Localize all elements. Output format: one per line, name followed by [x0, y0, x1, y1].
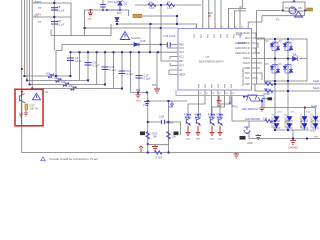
svg-text:If anode should be connected t: If anode should be connected to 7S tab — [49, 157, 98, 161]
svg-text:GND: GND — [217, 105, 222, 107]
svg-text:0.1µF: 0.1µF — [127, 72, 134, 76]
wire left bus vertical 3 — [27, 0, 88, 80]
ground tp6 — [136, 93, 141, 98]
wire rail S-bend — [56, 45, 62, 77]
resistor bottom line — [155, 151, 162, 154]
svg-text:GND: GND — [136, 101, 141, 103]
svg-text:NC: NC — [179, 69, 183, 72]
svg-text:SEGMENT_D: SEGMENT_D — [312, 113, 314, 128]
power flag gnd145 — [139, 146, 143, 153]
svg-text:10k: 10k — [61, 80, 66, 84]
svg-text:R5: R5 — [208, 14, 212, 18]
NTC thermistor — [25, 104, 28, 110]
capacitor C9 col2 — [85, 63, 92, 66]
svg-text:PC1: PC1 — [245, 36, 251, 40]
wire rail T2 — [70, 51, 177, 53]
wire +5V rail — [33, 16, 71, 18]
wire led mid taps — [265, 39, 308, 81]
svg-text:TP12: TP12 — [232, 105, 239, 109]
svg-text:0.1µF: 0.1µF — [93, 64, 100, 68]
svg-text:0.1 µF: 0.1 µF — [57, 8, 65, 12]
fuse F1 orange — [133, 14, 142, 17]
resistor R22 vertical — [146, 132, 149, 139]
IC right inner labels — [235, 31, 251, 86]
capacitor C17 col5 — [136, 76, 143, 79]
wire box right leg — [84, 10, 86, 36]
wire bottom left cluster — [148, 101, 181, 153]
led box — [265, 39, 308, 81]
svg-text:SEGMENT_A: SEGMENT_A — [272, 113, 275, 128]
svg-text:LEDCNT(L3): LEDCNT(L3) — [235, 46, 250, 50]
svg-text:C5 0.1µF: C5 0.1µF — [108, 0, 119, 4]
svg-text:SCL: SCL — [245, 76, 251, 80]
wire bottom mid transistors drain — [188, 125, 220, 128]
led labels — [266, 41, 297, 66]
svg-text:1.1K: 1.1K — [167, 6, 173, 10]
svg-text:C15 2.2µF: C15 2.2µF — [164, 34, 177, 38]
svg-text:RST: RST — [179, 65, 184, 68]
svg-text:SegF: SegF — [313, 79, 320, 83]
IC bottom pin labels vertical — [198, 83, 233, 88]
ground led display — [259, 107, 264, 111]
wire led box feeds — [256, 33, 265, 53]
capacitor C5 top — [100, 5, 106, 7]
svg-text:U?: U? — [206, 55, 210, 59]
wire box bottom — [51, 17, 111, 36]
wire cap columns — [70, 52, 139, 92]
capacitor C4 col4 — [119, 71, 126, 74]
power tag vcc — [307, 8, 313, 11]
svg-text:PGM: PGM — [236, 33, 242, 37]
transistors Q2-Q5 bottom — [185, 113, 223, 126]
lavender stub arrow tp12 — [228, 103, 231, 105]
svg-text:TP5: TP5 — [152, 83, 157, 87]
IC left inner labels — [179, 44, 186, 77]
svg-text:TP6: TP6 — [136, 88, 141, 92]
wire tp5 stub — [156, 52, 158, 87]
IMP box r23 — [174, 132, 179, 136]
IC U1 ATMEGA — [178, 29, 252, 91]
svg-text:GND: GND — [218, 139, 223, 141]
svg-text:0.1 µF: 0.1 µF — [166, 120, 174, 124]
ground transistors Q2-Q5 — [186, 126, 223, 136]
wire bottom right leds — [249, 81, 320, 139]
svg-text:R31: R31 — [264, 87, 269, 91]
resistor RN4 — [70, 85, 76, 92]
svg-text:SMB: SMB — [244, 66, 250, 70]
svg-text:TP7: TP7 — [143, 104, 148, 108]
svg-text:PROGRAMMING: PROGRAMMING — [242, 67, 245, 86]
wire cap column C8 C11 — [53, 0, 55, 51]
svg-text:DSP: DSP — [245, 82, 251, 86]
resistor RN3 — [63, 81, 69, 88]
svg-text:10k: 10k — [153, 135, 158, 139]
svg-text:LED DISPLAY: LED DISPLAY — [242, 107, 259, 111]
led D9 mid — [293, 57, 298, 62]
capacitor C11 — [51, 22, 58, 25]
ground shutdown q — [256, 134, 262, 140]
resistor R6 — [48, 3, 273, 154]
svg-text:+BATT: +BATT — [34, 0, 42, 4]
svg-text:AREF: AREF — [179, 74, 186, 77]
svg-text:10k: 10k — [46, 72, 51, 76]
wire bat top — [85, 10, 197, 36]
resistor RN1 — [48, 73, 54, 80]
svg-text:RESET: RESET — [238, 41, 247, 45]
wire shutdown transistor — [248, 121, 250, 139]
resistor R23 vertical — [167, 132, 170, 139]
svg-text:GND: GND — [186, 139, 191, 141]
wire shutdown — [232, 97, 275, 122]
svg-text:TP: TP — [38, 6, 42, 10]
wire blue net d2 — [107, 5, 120, 10]
svg-text:1.1K: 1.1K — [149, 6, 155, 10]
red box highlight — [15, 89, 43, 126]
wire bat diode — [117, 22, 150, 52]
svg-text:SegE: SegE — [311, 104, 318, 108]
resistor R30 — [265, 82, 273, 85]
diode schottky D10 — [134, 43, 139, 47]
bottom right LEDs — [273, 117, 319, 129]
svg-text:C18: C18 — [159, 115, 164, 119]
svg-text:+5V: +5V — [34, 14, 39, 18]
IC top pin numbers — [195, 27, 244, 29]
wire ic left pins — [161, 45, 178, 75]
LEDs in box pairs — [270, 41, 298, 74]
warning triangle mid — [120, 32, 129, 40]
svg-text:DISP: DISP — [264, 92, 270, 96]
svg-text:10k: 10k — [69, 84, 74, 88]
svg-text:0.1 µF: 0.1 µF — [57, 22, 65, 26]
svg-text:0.1µF: 0.1µF — [75, 59, 82, 63]
wire +BATT rail — [33, 3, 71, 17]
resistor shutdown 10k — [265, 119, 272, 122]
svg-text:10k: 10k — [54, 76, 59, 80]
regulator triangle — [295, 12, 303, 18]
svg-text:SegG: SegG — [313, 86, 320, 90]
svg-text:PB7: PB7 — [179, 60, 184, 63]
svg-text:TP: TP — [38, 20, 42, 24]
svg-text:XC2: XC2 — [179, 51, 184, 54]
battery plus — [293, 0, 296, 3]
svg-text:R7: R7 — [167, 1, 171, 5]
wire rail T1 — [62, 44, 177, 46]
capacitor C6 series — [167, 42, 170, 47]
svg-text:0.1µF: 0.1µF — [110, 68, 117, 72]
wire ic top pins — [203, 0, 246, 29]
svg-text:R6: R6 — [149, 1, 153, 5]
ground top left — [88, 10, 93, 16]
node red dot r24 — [147, 143, 149, 145]
svg-text:5V: 5V — [276, 18, 279, 22]
ground TP12 — [217, 96, 222, 104]
svg-text:TP9: TP9 — [168, 105, 173, 109]
svg-text:S-001: S-001 — [156, 156, 163, 160]
capacitor C8 — [51, 5, 170, 125]
wire box left leg — [50, 30, 52, 36]
texts small labels — [30, 0, 320, 159]
svg-text:10k: 10k — [263, 117, 268, 121]
wire reg bottom loop — [248, 11, 304, 40]
led pair D5 — [272, 64, 278, 75]
svg-text:SEGMENT_C: SEGMENT_C — [301, 113, 303, 128]
svg-text:SDA: SDA — [245, 71, 251, 75]
wire top R6 R7 — [135, 4, 201, 6]
svg-text:R27: R27 — [208, 113, 213, 117]
svg-text:CHGND: CHGND — [288, 146, 298, 150]
svg-text:10k TH: 10k TH — [30, 107, 38, 111]
wire right resistor row2 — [255, 84, 320, 91]
wire y28 net — [85, 27, 162, 29]
led pair D4 — [285, 41, 291, 52]
transistor Q1 red box — [19, 91, 25, 126]
lavender net stub — [161, 28, 264, 108]
wire left bus vertical 4 — [30, 0, 105, 85]
svg-text:XC1: XC1 — [179, 56, 184, 59]
svg-text:SHUTDOWN: SHUTDOWN — [245, 117, 260, 121]
wire reg right tap — [305, 10, 307, 12]
svg-text:D10: D10 — [141, 39, 146, 43]
ground bottom line mid — [234, 153, 240, 159]
IC top pin labels vertical — [194, 33, 242, 38]
svg-text:XC3: XC3 — [179, 47, 184, 50]
battery box BT1 — [283, 2, 305, 11]
led pair D3 — [272, 41, 278, 52]
wire left bus vertical 5 — [32, 0, 122, 89]
capacitor col1 — [67, 58, 74, 61]
svg-text:0.1µF: 0.1µF — [144, 77, 151, 81]
wire reg feed — [257, 11, 283, 85]
svg-text:R26: R26 — [195, 113, 200, 117]
capacitor C10 col3 — [102, 67, 109, 70]
svg-text:GND: GND — [210, 139, 215, 141]
warning triangle note — [41, 157, 46, 161]
ground mid TP5 — [154, 87, 160, 93]
svg-text:CHG: CHG — [314, 137, 319, 139]
resistor R31 — [265, 89, 273, 92]
wire left bus vertical 2 — [24, 0, 70, 76]
svg-text:R25: R25 — [184, 113, 189, 117]
ground red box a — [19, 110, 28, 117]
led pair D6 — [285, 64, 291, 75]
svg-text:GND: GND — [310, 129, 316, 133]
wire cap5 bottom — [131, 93, 148, 102]
seg labels vertical purple — [272, 113, 314, 128]
wire c5 stub — [102, 0, 104, 10]
diode D1 bat — [115, 0, 139, 46]
diode D2 top — [118, 2, 122, 5]
warning triangle red box — [33, 93, 41, 100]
svg-text:R30: R30 — [264, 80, 269, 84]
svg-text:BGA/ATMEGA168-P/I: BGA/ATMEGA168-P/I — [199, 61, 224, 64]
node red dot bus end — [21, 68, 23, 70]
svg-text:SEGMENT_B: SEGMENT_B — [286, 113, 288, 128]
ground mid TP9 — [144, 100, 150, 106]
test point stub TP8 — [171, 101, 174, 107]
wire y101 rail — [148, 100, 187, 102]
resistor R7 — [167, 3, 175, 6]
svg-text:DAC0: DAC0 — [243, 61, 250, 65]
ground chgnd — [290, 139, 296, 145]
regulator U3 circle — [289, 7, 296, 14]
svg-text:GND: GND — [196, 139, 201, 141]
svg-text:GB: GB — [298, 7, 302, 10]
svg-text:GND: GND — [87, 19, 92, 21]
svg-text:C8: C8 — [57, 5, 61, 9]
node top gnd junction — [90, 9, 92, 11]
IMP box shutdown — [240, 136, 246, 140]
svg-text:GND: GND — [247, 141, 253, 145]
ground bottom cluster — [152, 145, 158, 151]
svg-text:C11: C11 — [57, 19, 62, 23]
resistor RN2 — [55, 77, 61, 84]
wire ic right pins — [252, 33, 320, 84]
svg-text:DAC1: DAC1 — [243, 56, 250, 60]
IMP box r22 — [140, 132, 145, 136]
svg-text:R28: R28 — [217, 113, 222, 117]
IMP box led display — [268, 97, 273, 100]
svg-text:BAT: BAT — [117, 11, 122, 15]
wire ic bottom pins — [188, 90, 231, 116]
transistor led display — [244, 95, 268, 134]
wire left bus vertical 1 — [22, 0, 320, 153]
svg-text:LEDCNT(L4): LEDCNT(L4) — [235, 51, 250, 55]
wire r7 down — [160, 5, 162, 61]
IC bottom pin numbers — [199, 93, 235, 95]
svg-text:10k: 10k — [172, 135, 177, 139]
capacitor C18 series — [162, 120, 165, 124]
svg-text:D2: D2 — [124, 2, 128, 6]
wire fuse — [142, 16, 178, 24]
